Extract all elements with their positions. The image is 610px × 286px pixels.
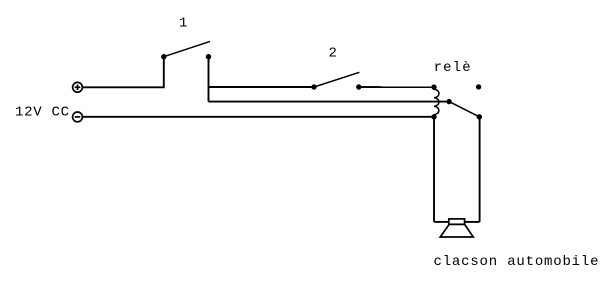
relay common contact dot [446, 99, 451, 104]
wire relay contact to horn right [479, 117, 481, 222]
battery positive terminal [73, 82, 83, 92]
switch S1 right pole dot [206, 54, 211, 59]
switch S2 left pole dot [311, 84, 316, 89]
wire battery+ to switch 1 [82, 57, 163, 88]
relay coil [434, 87, 439, 117]
switch S1 lever [164, 41, 210, 56]
wire switch 2 to relay coil top [359, 86, 434, 88]
wire battery- to relay coil bottom [82, 116, 434, 118]
svg-text:12V CC: 12V CC [15, 105, 69, 121]
svg-text:2: 2 [329, 45, 337, 61]
switch S2 lever [314, 72, 359, 87]
wire switch 1 output vertical [208, 57, 210, 102]
wire relay coil bottom to horn left [433, 117, 435, 222]
horn driver body [449, 219, 465, 224]
svg-text:clacson automobile: clacson automobile [434, 254, 599, 270]
relay normally-open contact dot [476, 84, 481, 89]
svg-text:relè: relè [434, 60, 471, 76]
switch S1 left pole dot [161, 54, 166, 59]
relay coil bottom junction dot [431, 114, 436, 119]
switch S2 right pole dot [356, 84, 361, 89]
relay coil top junction dot [431, 84, 436, 89]
battery negative terminal [73, 112, 83, 122]
wire horn right lead [464, 221, 479, 223]
relay closed contact dot [477, 114, 482, 119]
wire horn left lead [434, 221, 449, 223]
svg-text:1: 1 [179, 15, 187, 31]
wire switch 1 to relay common contact [209, 101, 450, 103]
wire switch 1 to switch 2 [209, 86, 315, 88]
horn cone [440, 224, 473, 237]
relay armature lever [449, 102, 479, 117]
